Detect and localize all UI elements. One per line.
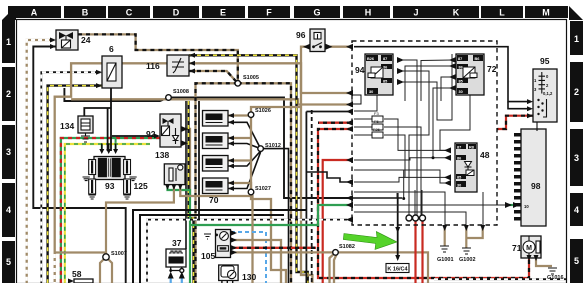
svg-text:96: 96 [296,30,306,40]
svg-text:94: 94 [355,65,365,75]
svg-text:J: J [413,8,418,18]
svg-text:S1012: S1012 [265,143,281,149]
svg-text:2: 2 [6,89,11,99]
svg-text:85: 85 [459,80,463,84]
svg-text:F26: F26 [373,127,381,132]
svg-text:B6: B6 [475,57,480,61]
svg-text:M: M [542,8,550,18]
svg-text:30: 30 [369,90,373,94]
svg-text:B: B [82,8,89,18]
svg-text:98: 98 [531,181,541,191]
svg-text:F: F [266,8,272,18]
svg-text:G1016: G1016 [547,275,564,281]
svg-text:86: 86 [459,66,463,70]
svg-text:37: 37 [172,238,182,248]
svg-text:138: 138 [155,150,169,160]
svg-text:87: 87 [457,146,461,150]
svg-text:48: 48 [480,150,490,160]
svg-text:30: 30 [457,184,461,188]
svg-text:10: 10 [524,204,529,209]
svg-text:S1005: S1005 [243,75,259,81]
svg-text:86: 86 [457,157,461,161]
svg-text:105: 105 [201,251,215,261]
svg-text:116: 116 [146,61,160,71]
svg-text:87: 87 [383,57,387,61]
svg-text:3: 3 [574,153,579,163]
svg-text:B26: B26 [367,57,374,61]
svg-text:95: 95 [540,56,550,66]
svg-text:125: 125 [134,181,148,191]
svg-text:R8: R8 [469,146,474,150]
svg-text:58: 58 [72,269,82,279]
svg-text:5: 5 [6,257,11,267]
svg-text:1: 1 [574,34,579,44]
svg-text:C: C [126,8,133,18]
svg-text:E: E [220,8,226,18]
svg-text:3: 3 [6,147,11,157]
svg-text:30: 30 [459,90,463,94]
svg-text:F5: F5 [374,119,379,124]
svg-text:K 16/C4: K 16/C4 [387,267,408,273]
svg-text:87: 87 [458,57,462,61]
svg-text:H: H [365,8,372,18]
svg-text:5: 5 [574,256,579,266]
svg-text:24: 24 [81,35,91,45]
svg-text:4: 4 [574,205,579,215]
svg-text:134: 134 [60,121,74,131]
svg-text:L: L [499,8,505,18]
svg-text:A: A [31,8,38,18]
svg-text:2: 2 [574,87,579,97]
svg-text:S1027: S1027 [255,186,271,192]
svg-text:S1026: S1026 [255,108,271,114]
svg-text:M: M [526,245,532,252]
svg-text:130: 130 [242,272,256,282]
svg-text:92: 92 [146,129,156,139]
svg-text:S1007: S1007 [111,251,127,257]
svg-text:70: 70 [209,195,219,205]
svg-text:G1001: G1001 [437,257,454,263]
svg-text:K: K [453,8,460,18]
svg-text:85: 85 [383,80,387,84]
svg-text:72: 72 [487,64,497,74]
svg-text:4: 4 [6,205,11,215]
svg-text:G1002: G1002 [459,257,476,263]
svg-text:D: D [173,8,180,18]
svg-text:71: 71 [512,243,522,253]
svg-text:F3: F3 [374,111,379,116]
svg-text:0,1,2: 0,1,2 [543,91,553,96]
svg-text:1: 1 [6,37,11,47]
svg-text:G: G [313,8,320,18]
svg-text:93: 93 [105,181,115,191]
svg-text:6: 6 [109,44,114,54]
svg-text:86: 86 [383,66,387,70]
svg-text:S1082: S1082 [339,244,355,250]
svg-text:S1008: S1008 [173,89,189,95]
svg-text:85: 85 [457,176,461,180]
